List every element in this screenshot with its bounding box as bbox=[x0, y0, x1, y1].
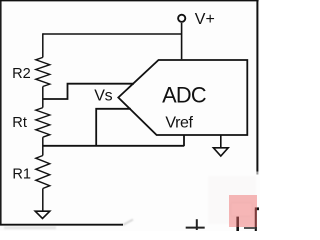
svg-text:Rt: Rt bbox=[12, 115, 27, 131]
svg-text:Vref: Vref bbox=[165, 115, 193, 132]
svg-text:V+: V+ bbox=[195, 11, 215, 28]
svg-text:ADC: ADC bbox=[162, 82, 206, 107]
svg-text:R1: R1 bbox=[12, 166, 31, 182]
svg-text:Vs: Vs bbox=[94, 87, 112, 104]
svg-text:R2: R2 bbox=[12, 66, 31, 82]
